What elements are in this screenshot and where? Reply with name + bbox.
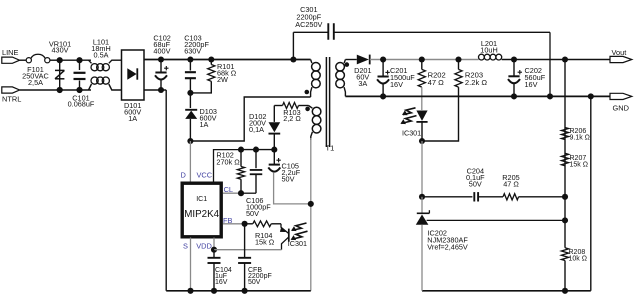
svg-text:47 Ω: 47 Ω [428, 78, 445, 87]
svg-text:50V: 50V [248, 279, 261, 286]
svg-text:3A: 3A [358, 79, 367, 88]
svg-text:MIP2K4: MIP2K4 [184, 209, 219, 220]
capacitor C102 [153, 34, 170, 93]
wire C105 bottom [274, 172, 311, 204]
primary top rail [144, 59, 311, 61]
svg-text:D: D [181, 170, 186, 179]
svg-text:1A: 1A [128, 114, 137, 123]
IC1 MIP2K4 [182, 183, 221, 237]
svg-text:2.2k Ω: 2.2k Ω [465, 78, 487, 87]
VCC node row [238, 147, 277, 153]
wire secondary to D201 [345, 59, 356, 61]
svg-text:15k Ω: 15k Ω [255, 237, 275, 246]
svg-text:1A: 1A [200, 120, 209, 129]
inductor L101 (common-mode choke) [89, 37, 122, 90]
svg-text:LINE: LINE [2, 48, 19, 57]
pin label D [181, 170, 186, 179]
wire FB pin [223, 221, 248, 227]
divider chain wire [562, 60, 568, 248]
Vout rail [502, 56, 610, 62]
wire C301 to GND rail [547, 32, 553, 99]
opto transistor IC301 [280, 223, 308, 250]
svg-text:2W: 2W [217, 75, 228, 84]
transformer T1 aux winding [309, 106, 321, 141]
GND to bottom link [590, 96, 592, 290]
svg-text:T1: T1 [326, 144, 335, 153]
inductor L201 [479, 39, 502, 60]
resistor R208 [561, 248, 587, 294]
capacitor CFB [238, 224, 272, 294]
resistor R103 [274, 103, 308, 124]
aux phase dot [305, 107, 310, 112]
svg-text:16V: 16V [215, 279, 228, 286]
resistor R104 [245, 221, 281, 246]
capacitor C103 [184, 34, 209, 93]
svg-text:Vref=2,465V: Vref=2,465V [427, 243, 468, 252]
svg-text:2,5A: 2,5A [28, 78, 43, 87]
capacitor C202 [508, 60, 546, 100]
Vout terminal [610, 48, 632, 63]
pin label S [183, 241, 188, 250]
bridge rectifier D101 [122, 50, 145, 123]
resistor R205 [502, 173, 565, 200]
resistor R101 [187, 56, 236, 95]
GND rail [345, 93, 610, 99]
GND terminal [610, 93, 632, 112]
aux return wire [308, 138, 314, 291]
pin label VCC [196, 170, 212, 179]
capacitor C201 [377, 60, 415, 100]
primary ground rail [166, 290, 311, 292]
svg-text:2,2 Ω: 2,2 Ω [283, 114, 301, 123]
fuse F101 [22, 54, 50, 87]
svg-text:16V: 16V [390, 80, 403, 89]
secondary bottom rail [422, 290, 591, 292]
svg-text:VDD: VDD [196, 241, 212, 250]
svg-text:S: S [183, 241, 188, 250]
wire LINE to F101 [20, 59, 27, 61]
transformer T1 secondary winding [336, 60, 346, 97]
svg-text:NTRL: NTRL [2, 95, 21, 104]
wire NTRL [20, 89, 91, 91]
svg-text:GND: GND [613, 104, 629, 113]
wire node to C101 [60, 59, 91, 61]
IC202 ref wire [427, 219, 565, 221]
svg-text:0.5A: 0.5A [93, 51, 108, 60]
compensation wire [422, 196, 472, 198]
svg-text:AC250V: AC250V [295, 20, 322, 29]
pin label CL [224, 185, 233, 194]
capacitor C301 [290, 5, 550, 62]
svg-text:IC301: IC301 [288, 239, 307, 248]
capacitor C106 [246, 150, 271, 218]
svg-text:50V: 50V [246, 209, 259, 218]
wire CL pin [223, 190, 256, 196]
svg-text:400V: 400V [153, 47, 170, 56]
wire S pin [187, 238, 193, 294]
transformer core [326, 57, 329, 147]
resistor R202 [418, 60, 446, 111]
secondary phase dot [345, 62, 350, 67]
primary phase dot [305, 90, 310, 95]
pin label FB [223, 216, 233, 225]
resistor R203 [422, 60, 487, 142]
wire VCC pin [214, 150, 242, 182]
capacitor C204 [466, 166, 503, 201]
capacitor C105 [268, 150, 300, 184]
label T1 [326, 144, 335, 153]
capacitor C104 [208, 250, 232, 294]
diode D103 [185, 93, 217, 141]
diode D201 [354, 55, 371, 88]
svg-text:9.1k Ω: 9.1k Ω [570, 135, 590, 142]
LINE terminal [2, 48, 20, 63]
svg-text:15k Ω: 15k Ω [570, 161, 588, 168]
svg-text:630V: 630V [184, 47, 201, 56]
resistor R207 [561, 153, 588, 168]
NTRL terminal [2, 87, 22, 104]
wire VDD pin [211, 238, 282, 253]
LED IC301 [400, 108, 427, 144]
diode D102 [249, 106, 280, 150]
svg-text:IC301: IC301 [402, 128, 421, 137]
shunt regulator IC202 [416, 197, 469, 291]
svg-text:0,1A: 0,1A [249, 125, 264, 134]
svg-text:270k Ω: 270k Ω [216, 158, 240, 167]
svg-text:IC1: IC1 [196, 196, 207, 203]
bridge minus wire [144, 90, 166, 291]
svg-text:47 Ω: 47 Ω [503, 180, 519, 189]
transformer T1 primary winding [311, 60, 321, 98]
secondary top rail [370, 56, 479, 62]
capacitor C101 [68, 57, 95, 108]
svg-text:0.068uF: 0.068uF [68, 100, 95, 109]
svg-text:430V: 430V [51, 46, 68, 55]
svg-text:Vout: Vout [612, 48, 627, 57]
resistor R206 [561, 128, 590, 142]
wire F101 to node [50, 59, 60, 61]
drain node wires [187, 97, 310, 144]
svg-text:16V: 16V [525, 80, 538, 89]
wire LED to IC202 [419, 141, 425, 200]
svg-text:50V: 50V [282, 174, 295, 183]
svg-text:50V: 50V [469, 180, 482, 189]
resistor R102 [216, 150, 244, 194]
varistor VR101 [49, 39, 71, 93]
svg-text:VCC: VCC [196, 170, 212, 179]
pin label VDD [196, 241, 212, 250]
wire D pin [189, 141, 191, 182]
svg-text:10uH: 10uH [480, 45, 497, 54]
svg-text:10k Ω: 10k Ω [569, 256, 587, 263]
